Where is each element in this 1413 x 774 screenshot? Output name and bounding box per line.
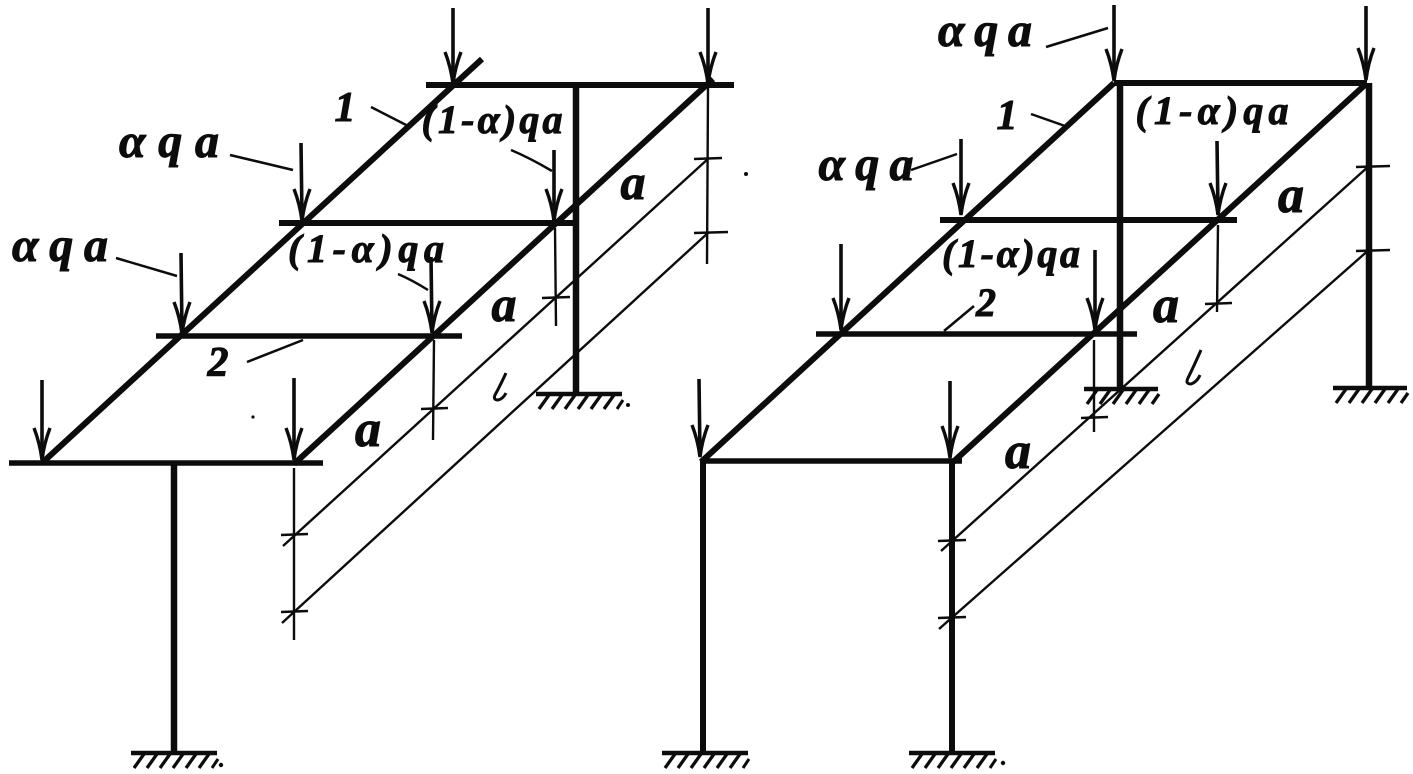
- rear-left column: [1117, 84, 1124, 388]
- tick: [542, 297, 570, 298]
- load arrow A7: [34, 380, 50, 460]
- svg-text:(1-α)qa: (1-α)qa: [1136, 88, 1289, 133]
- svg-text:αqa: αqa: [119, 115, 219, 168]
- leader: [116, 258, 177, 276]
- load arrow A1: [445, 8, 461, 84]
- svg-text:a: a: [355, 401, 381, 458]
- front-left column: [700, 461, 706, 752]
- beam 1 (longitudinal, right scheme): [701, 83, 1114, 462]
- ground support under front-left column: [662, 753, 749, 768]
- projection line W3: [1093, 340, 1095, 432]
- load arrow A4: [546, 150, 562, 221]
- dim label l (right): [1187, 350, 1201, 384]
- svg-text:αqa: αqa: [819, 138, 914, 191]
- svg-text:(1-α)qa: (1-α)qa: [942, 231, 1080, 276]
- load arrow A2: [700, 8, 716, 84]
- leader: [911, 154, 957, 170]
- svg-text:2: 2: [207, 340, 229, 386]
- tick on rear-right column: [1356, 250, 1390, 251]
- tick: [694, 158, 722, 159]
- svg-text:a: a: [1153, 277, 1179, 334]
- middle transverse beam: [940, 217, 1237, 223]
- load arrow A8: [286, 378, 302, 460]
- svg-text:a: a: [621, 154, 646, 210]
- leader for 1: [1031, 114, 1068, 127]
- beam 1 (longitudinal, left scheme): [42, 59, 482, 463]
- scan speck: [251, 415, 254, 418]
- leader: [1046, 28, 1108, 47]
- tick: [1081, 417, 1108, 418]
- projection line V2: [555, 228, 556, 326]
- bottom transverse beam: [9, 460, 323, 466]
- lower transverse beam 2: [816, 331, 1137, 337]
- scan speck: [744, 172, 748, 176]
- svg-text:αqa: αqa: [12, 219, 108, 272]
- dimension rail lower (right scheme): [939, 248, 1371, 629]
- beam (second longitudinal, right scheme): [952, 83, 1367, 463]
- ground support under front-right column: [909, 753, 996, 768]
- leader for 1: [371, 107, 410, 127]
- projection line V3: [433, 340, 434, 440]
- projection line W2: [1217, 225, 1218, 312]
- load arrow B6: [1087, 250, 1103, 330]
- middle transverse beam: [279, 220, 573, 226]
- front-right column: [949, 461, 955, 752]
- tick on front-right column: [938, 540, 966, 541]
- beam (second longitudinal, left scheme): [294, 79, 713, 464]
- load arrow B1: [1106, 5, 1122, 81]
- svg-text:αqa: αqa: [938, 4, 1032, 57]
- ground support under rear column: [536, 394, 623, 409]
- svg-text:a: a: [1278, 167, 1304, 224]
- top transverse beam: [1114, 80, 1367, 86]
- dimension rail lower: [282, 232, 709, 623]
- speck after rear ground hatch (left scheme): [626, 403, 630, 407]
- leader for 2: [247, 340, 303, 362]
- dimension rail upper: [283, 158, 709, 546]
- dimension rail upper (right scheme): [941, 165, 1370, 551]
- speck after front-right ground hatch (right scheme): [1001, 761, 1005, 765]
- load arrow B7: [692, 379, 708, 457]
- tick: [281, 611, 308, 612]
- tick: [421, 408, 448, 409]
- rear-right column: [1366, 83, 1373, 387]
- load arrow B4: [1210, 141, 1226, 215]
- svg-text:a: a: [492, 276, 517, 332]
- ground support under front column: [131, 753, 218, 768]
- load arrow B2: [1358, 6, 1374, 80]
- load arrow B8: [942, 381, 958, 458]
- svg-text:a: a: [1005, 423, 1031, 480]
- svg-text:(1-α)qa: (1-α)qa: [288, 226, 444, 271]
- top transverse beam: [426, 82, 734, 88]
- tick: [1205, 303, 1232, 304]
- svg-text:1: 1: [997, 93, 1018, 139]
- svg-text:(1-α)qa: (1-α)qa: [422, 97, 563, 142]
- projection line V1: [707, 88, 708, 264]
- tick: [694, 232, 728, 233]
- leader: [398, 274, 428, 290]
- leader: [511, 150, 552, 171]
- bottom transverse beam: [701, 458, 962, 464]
- ground support under rear-left column: [1084, 389, 1159, 404]
- dim label l: [494, 373, 506, 400]
- leader: [230, 155, 293, 170]
- leader for 2: [944, 306, 974, 331]
- rear column: [573, 86, 580, 393]
- load arrow A3: [294, 143, 310, 221]
- load arrow A5: [174, 253, 190, 334]
- lower transverse beam 2: [156, 333, 462, 339]
- svg-text:2: 2: [975, 280, 996, 325]
- tick on front-right column: [938, 617, 966, 618]
- tick: [281, 534, 308, 535]
- projection line V4: [293, 468, 295, 640]
- load arrow B5: [833, 244, 849, 330]
- load arrow B3: [953, 139, 969, 215]
- tick on rear-right column: [1356, 166, 1390, 167]
- speck after front ground hatch (left scheme): [219, 763, 223, 767]
- svg-text:1: 1: [335, 85, 356, 131]
- load arrow A6: [424, 257, 440, 333]
- ground support under rear-right column: [1333, 388, 1408, 403]
- front column: [171, 463, 178, 752]
